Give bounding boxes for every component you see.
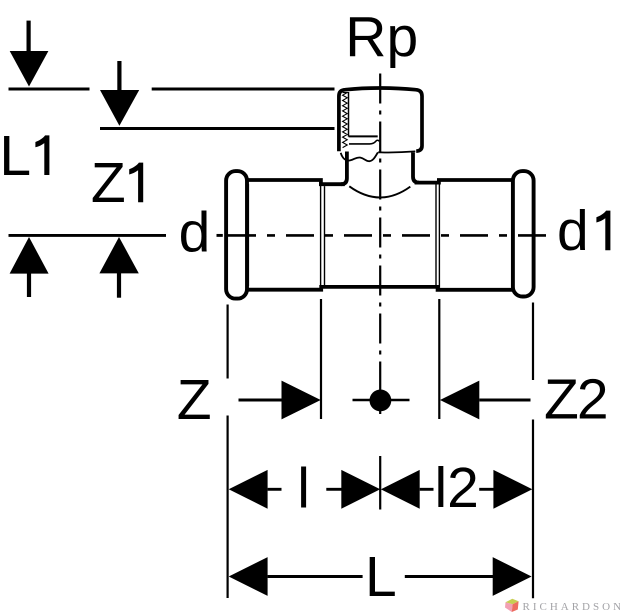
svg-text:Z: Z (177, 368, 212, 432)
Z dimension line (239, 399, 282, 402)
right press flange (513, 171, 534, 296)
svg-text:l: l (297, 457, 310, 521)
thread hatch zigzag (343, 93, 348, 148)
Z1 top arrowhead (100, 90, 139, 126)
svg-text:Rp: Rp (345, 5, 418, 69)
svg-text:d: d (557, 199, 589, 263)
main centerline dash-dot through fitting (228, 234, 546, 237)
l arrowhead pointing right (341, 470, 380, 509)
Z arrowhead pointing right (282, 381, 321, 420)
L arrowhead pointing left (229, 557, 268, 596)
left flange crease line (247, 184, 249, 286)
svg-text:Z: Z (91, 151, 126, 215)
Rp threaded collar outline (339, 88, 422, 151)
Z2 arrowhead pointing left (440, 381, 479, 420)
main horizontal centerline (left solid segment) (9, 234, 167, 237)
right socket step line 2 (438, 182, 440, 288)
L dimension line left part (268, 575, 363, 578)
extension line at right socket stop (438, 299, 440, 419)
svg-text:L: L (365, 545, 397, 609)
l2 arrowhead pointing left (381, 470, 420, 509)
right socket step line 1 (435, 185, 437, 286)
l2 dimension line right stub (479, 488, 494, 491)
svg-text:RICHARDSON: RICHARDSON (523, 601, 620, 613)
extension line at right fitting end (532, 303, 534, 599)
Z1 reference line (thread stop level) (100, 127, 335, 130)
bottom edge: left socket, body, right socket (247, 287, 513, 290)
l dimension line left stub (268, 488, 282, 491)
saddle arc at branch-body junction (349, 186, 410, 197)
collar bottom edge (thin) (378, 151, 415, 152)
L1 bottom arrowhead (10, 237, 49, 274)
Z1 top arrow shaft (117, 61, 121, 92)
break wavy line under collar (341, 152, 378, 161)
L1 top arrowhead (10, 51, 49, 87)
extension line at left fitting end (227, 305, 229, 599)
Z2 dimension line (479, 399, 530, 402)
svg-text:Z2: Z2 (544, 368, 607, 432)
Z1 bottom arrow shaft (117, 273, 121, 298)
branch center dot (370, 390, 392, 412)
thread end inner line (349, 135, 378, 137)
L1 reference line (top of collar level) left part (9, 88, 90, 91)
branch right wall (413, 153, 419, 183)
svg-text:l2: l2 (435, 456, 479, 520)
l2 arrowhead pointing right (493, 470, 532, 509)
center mark line through dot (353, 399, 410, 402)
branch vertical centerline dash-dot (379, 74, 381, 415)
right body ledge and right socket top edge (415, 180, 513, 183)
Z1 bottom arrowhead (99, 237, 138, 273)
svg-text:L: L (0, 124, 31, 188)
centerline short dash before left flange (217, 234, 223, 237)
right flange crease line (512, 184, 514, 286)
L1 top arrow shaft (27, 21, 31, 53)
l arrowhead pointing left (229, 470, 268, 509)
left press flange (226, 171, 247, 299)
L arrowhead pointing right (493, 557, 532, 596)
left socket step line 2 (324, 186, 326, 285)
left socket top edge with step to body ledge (247, 180, 345, 184)
branch left wall (341, 152, 347, 185)
L dimension line right part (405, 575, 495, 578)
branch centerline solid lower segment (379, 456, 381, 510)
L1 reference line right part (152, 88, 335, 91)
svg-text:d: d (179, 200, 211, 264)
collar inner bore line (348, 92, 350, 137)
extension line at left socket stop (320, 299, 322, 419)
L1 bottom arrow shaft (27, 273, 31, 297)
Richardson logo icon (505, 599, 519, 612)
l dimension line right stub (326, 488, 341, 491)
pipe stop inner line with hook (349, 140, 379, 144)
l2 dimension line left stub (420, 488, 434, 491)
left socket step line 1 (320, 182, 322, 288)
